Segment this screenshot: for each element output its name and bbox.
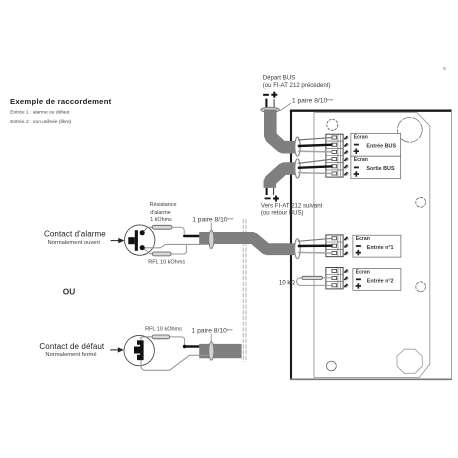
wire 1k resistor to minus conductor junction xyxy=(172,227,184,236)
wire RFL resistor to plus conductor xyxy=(171,244,187,254)
screw terminal BUS pin 6 xyxy=(344,172,348,176)
cable entry ellipse BUS out xyxy=(295,159,300,178)
svg-text:Ecran: Ecran xyxy=(356,236,370,242)
svg-text:OU: OU xyxy=(63,287,75,297)
wire pin-bottom to plus conductor xyxy=(142,244,200,247)
screw terminal ENTREE2 pin 3 xyxy=(344,284,348,288)
resistor RFL 10 kOhms (alarm) xyxy=(152,252,171,256)
screw terminal ENTREE2 pin 2 xyxy=(344,277,348,281)
screw terminal ENTREE1 pin 2 xyxy=(344,244,348,248)
screw terminal BUS pin 2 xyxy=(344,143,348,147)
svg-text:Contact d'alarme: Contact d'alarme xyxy=(44,230,106,239)
wire 10k resistor to minus terminal n°2 xyxy=(320,277,333,279)
screw terminal BUS pin 3 xyxy=(344,151,348,155)
defect contact blade xyxy=(134,340,144,360)
label box Entrée BUS xyxy=(351,133,401,156)
svg-text:Entrée n°2: Entrée n°2 xyxy=(367,278,394,284)
svg-text:Vers FI-AT 212 suivant: Vers FI-AT 212 suivant xyxy=(261,202,323,209)
wall pass-through dashed line (right) xyxy=(245,219,247,362)
alarm contact pin top xyxy=(140,230,145,235)
polarity minus (départ BUS) xyxy=(263,94,269,96)
minus wire BUS in xyxy=(298,145,333,146)
svg-text:1 paire 8/10eme: 1 paire 8/10eme xyxy=(192,328,233,335)
hole right upper (small) xyxy=(416,197,426,207)
minus wire BUS out xyxy=(298,166,333,168)
minus conductor (black) defect xyxy=(185,345,200,347)
resistor RFL 10 kOhms (defect) xyxy=(152,335,170,339)
wire stub minus (vers FI-AT suivant) xyxy=(266,188,268,195)
terminal block ENTREE1 xyxy=(326,235,343,257)
svg-text:1 kOhms: 1 kOhms xyxy=(150,217,172,223)
defect plus conductor visible over cable xyxy=(199,354,211,356)
écran wire BUS in xyxy=(298,138,333,141)
svg-text:Contact de défaut: Contact de défaut xyxy=(39,342,105,351)
svg-text:Sortie BUS: Sortie BUS xyxy=(366,166,395,172)
plus wire BUS out xyxy=(298,172,333,175)
svg-text:Entrée BUS: Entrée BUS xyxy=(366,143,396,149)
cable entry ellipse BUS in xyxy=(295,137,300,156)
defect cable sheath ellipse xyxy=(209,342,214,360)
screw terminal ENTREE1 pin 1 xyxy=(344,237,348,241)
label box Entrée n°2 xyxy=(353,269,401,291)
wire pin-bottom to RFL resistor xyxy=(142,248,152,254)
wire defect contact top to RFL resistor xyxy=(141,337,152,341)
defect cable (thick grey) xyxy=(199,344,241,358)
svg-text:RFL 10 kOhms: RFL 10 kOhms xyxy=(145,326,182,332)
resistor 10 kOhms (entrée n°2 RFL) xyxy=(302,276,323,279)
svg-text:Entrée 1 : alarme ou défaut: Entrée 1 : alarme ou défaut xyxy=(10,109,70,115)
defect contact circle (NC contact) xyxy=(124,335,154,365)
svg-text:Entrée n°1: Entrée n°1 xyxy=(367,245,394,251)
polarity plus (départ BUS) xyxy=(271,92,277,98)
svg-text:10 kΩ: 10 kΩ xyxy=(279,281,295,287)
svg-text:(ou FI-AT 212 précédent): (ou FI-AT 212 précédent) xyxy=(263,82,331,89)
screw terminal ENTREE1 pin 3 xyxy=(344,252,348,256)
wire defect contact bottom to plus conductor xyxy=(141,355,200,370)
alarm cable sheath ellipse xyxy=(209,230,214,248)
BUS départ cable sheath ellipse (top) xyxy=(261,107,280,112)
terminal block BUS xyxy=(326,134,343,177)
screw terminal BUS pin 5 xyxy=(344,165,348,169)
svg-text:Normalement ouvert: Normalement ouvert xyxy=(48,240,101,246)
alarm contact button xyxy=(128,237,135,244)
svg-text:Ecran: Ecran xyxy=(356,269,370,275)
wire RFL resistor to minus junction (defect) xyxy=(170,337,185,347)
label box Sortie BUS xyxy=(351,156,401,178)
resistor 1 kOhms (alarm) xyxy=(152,225,172,229)
polarity plus (vers FI-AT suivant) xyxy=(273,196,279,202)
svg-text:Exemple de raccordement: Exemple de raccordement xyxy=(10,97,112,106)
alarm contact pin bottom xyxy=(140,245,145,250)
mounting hole bottom-left (small) xyxy=(327,361,337,371)
wall pass-through dashed line (left) xyxy=(242,219,244,362)
svg-text:RFL 10 kOhms: RFL 10 kOhms xyxy=(148,260,185,266)
minus wire entrée n°1 xyxy=(298,244,333,247)
wire stub minus to cable (départ BUS) xyxy=(265,99,267,108)
plus wire BUS in xyxy=(298,150,333,153)
svg-text:Ecran: Ecran xyxy=(354,134,368,140)
svg-text:Ecran: Ecran xyxy=(354,157,368,163)
pointer line to defect cable sheath xyxy=(210,334,212,342)
device inner plate outline xyxy=(314,113,430,378)
BUS sortie cable (thick grey) xyxy=(270,169,297,188)
minus conductor (black) alarm xyxy=(184,235,199,237)
knockout hole top-right (big) xyxy=(397,117,422,142)
wire pin-top to 1k resistor xyxy=(142,227,152,233)
svg-text:Résistance: Résistance xyxy=(150,202,177,208)
screw terminal ENTREE2 pin 1 xyxy=(344,270,348,274)
alarm contact actuator bar xyxy=(135,230,138,251)
arrow to alarm contact xyxy=(111,238,125,243)
pointer line to alarm cable sheath xyxy=(210,223,212,231)
cable entry ellipse entrée n°1 xyxy=(295,239,301,259)
écran wire entrée n°1 xyxy=(298,238,333,241)
knockout octagon bottom-right (big) xyxy=(397,349,423,373)
svg-text:1 paire 8/10eme: 1 paire 8/10eme xyxy=(292,97,333,104)
device outer box FI-AT 212 xyxy=(290,110,452,380)
polarity minus (vers FI-AT suivant) xyxy=(265,198,271,200)
alarm plus conductor visible over cable xyxy=(199,243,211,245)
wire 10k resistor U-loop to plus terminal n°2 xyxy=(297,278,333,286)
écran wire BUS out xyxy=(298,159,333,163)
mounting hole top-left (small) xyxy=(327,119,338,130)
junction dot (defect minus) xyxy=(183,345,187,349)
alarm contact circle (NO push button) xyxy=(125,225,155,255)
hole right lower (small) xyxy=(416,282,426,292)
svg-text:d'alarme: d'alarme xyxy=(150,210,171,216)
svg-text:Normalement fermé: Normalement fermé xyxy=(45,352,96,358)
svg-text:(ou retour BUS): (ou retour BUS) xyxy=(261,210,304,217)
screw terminal BUS pin 1 xyxy=(344,136,348,140)
pointer line to BUS cable sheath xyxy=(280,103,291,111)
BUS départ cable (thick grey) xyxy=(270,110,296,148)
wire stub plus (vers FI-AT suivant) xyxy=(273,188,275,195)
page artifact xyxy=(443,67,446,70)
arrow to defect contact xyxy=(110,347,124,352)
wire stub plus to cable (départ BUS) xyxy=(273,99,275,108)
svg-text:Entrée 2 : non utilisée (libre: Entrée 2 : non utilisée (libre) xyxy=(10,119,72,125)
alarm cable (thick grey) xyxy=(199,238,295,249)
label box Entrée n°1 xyxy=(353,235,401,257)
terminal block ENTREE2 xyxy=(326,268,343,289)
screw terminal BUS pin 4 xyxy=(344,158,348,162)
svg-text:Départ BUS: Départ BUS xyxy=(263,75,296,82)
plus wire entrée n°1 xyxy=(298,251,333,254)
svg-text:1 paire 8/10eme: 1 paire 8/10eme xyxy=(192,217,233,224)
